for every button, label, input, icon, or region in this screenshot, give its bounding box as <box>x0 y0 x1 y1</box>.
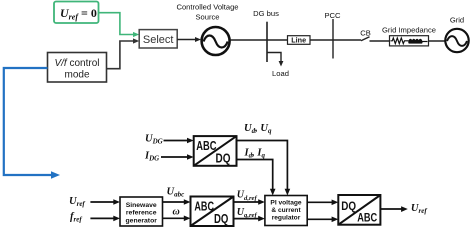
block sinewave reference generator <box>120 197 163 226</box>
svg-text:ABC: ABC <box>357 211 377 225</box>
svg-text:Uabc: Uabc <box>167 187 185 199</box>
svg-text:DQ: DQ <box>341 199 356 213</box>
svg-text:regulator: regulator <box>272 214 301 221</box>
svg-text:Uref: Uref <box>69 196 85 208</box>
block DQ/ABC output transform U3 <box>338 195 380 225</box>
svg-text:CB: CB <box>360 29 371 38</box>
svg-text:DQ: DQ <box>216 150 231 165</box>
svg-text:generator: generator <box>126 217 158 224</box>
svg-text:ABC: ABC <box>196 138 217 153</box>
block grid impedance <box>390 36 429 46</box>
svg-text:mode: mode <box>64 70 89 81</box>
block Line <box>288 36 311 45</box>
wire U_DG input <box>164 138 194 144</box>
wire PI to DQ/ABC upper <box>307 200 338 206</box>
block Uref=0 setpoint <box>54 2 99 24</box>
resistor Rg <box>391 38 409 44</box>
wire green Uref to Select <box>99 13 140 37</box>
svg-text:Uref: Uref <box>411 203 427 215</box>
wire I_DG input <box>161 154 194 160</box>
wire U_ref output <box>380 206 407 212</box>
svg-text:Ud,ref: Ud,ref <box>237 190 258 202</box>
svg-text:Uq,ref: Uq,ref <box>237 207 258 219</box>
wire PI to DQ/ABC lower <box>307 217 338 223</box>
wire Line to CB <box>310 39 361 41</box>
wire U_q,ref <box>234 216 265 222</box>
svg-text:Grid: Grid <box>450 16 464 25</box>
svg-text:Ud, Uq: Ud, Uq <box>244 123 272 135</box>
svg-text:reference: reference <box>126 210 157 217</box>
node DG bus <box>266 22 268 62</box>
wire Select to source <box>177 37 201 42</box>
source grid <box>445 29 468 52</box>
svg-text:V/f control: V/f control <box>54 58 99 69</box>
block PI voltage and current regulator <box>265 196 307 226</box>
svg-text:Source: Source <box>195 13 219 22</box>
block V/f control mode <box>48 53 107 83</box>
wire Ud Uq to PI regulator <box>237 141 291 196</box>
svg-text:Grid Impedance: Grid Impedance <box>382 26 436 35</box>
wire Id Iq to PI regulator <box>237 160 276 196</box>
svg-text:PI voltage: PI voltage <box>270 200 301 207</box>
svg-text:Id, Iq: Id, Iq <box>244 148 266 160</box>
svg-text:ω: ω <box>173 207 180 218</box>
svg-text:PCC: PCC <box>324 11 341 20</box>
wire f_ref input <box>90 216 120 222</box>
wire source to DG bus to Line box <box>231 39 288 41</box>
wire CB to impedance <box>370 40 390 42</box>
wire impedance to grid <box>429 40 447 42</box>
svg-text:DQ: DQ <box>214 211 228 226</box>
block ABC/DQ measurement transform U1 <box>194 136 237 166</box>
wire blue feedback to lower diagram <box>4 68 60 179</box>
svg-text:Select: Select <box>143 34 174 46</box>
inductor Lg <box>409 39 422 43</box>
wire U_abc <box>163 199 191 205</box>
wire V/f to Select <box>107 38 140 68</box>
svg-text:DG bus: DG bus <box>253 9 279 18</box>
source V1 controlled voltage source <box>202 27 230 55</box>
wire load branch <box>267 53 283 67</box>
svg-text:UDG: UDG <box>145 134 163 146</box>
node PCC bus <box>332 19 334 59</box>
svg-text:Controlled Voltage: Controlled Voltage <box>176 3 238 12</box>
block Select <box>139 30 177 48</box>
breaker CB <box>361 37 370 41</box>
svg-text:Uref = 0: Uref = 0 <box>60 6 97 22</box>
svg-text:IDG: IDG <box>144 151 159 163</box>
svg-text:& current: & current <box>271 207 301 214</box>
wire U_d,ref <box>234 199 265 205</box>
svg-text:Line: Line <box>291 36 306 45</box>
svg-text:Load: Load <box>272 69 289 78</box>
wire U_ref input <box>90 199 120 205</box>
svg-text:Sinewave: Sinewave <box>126 202 157 209</box>
block ABC/DQ reference transform U2 <box>191 197 234 227</box>
svg-text:ABC: ABC <box>194 198 214 213</box>
svg-text:fref: fref <box>70 212 82 224</box>
label Controlled Voltage Source <box>176 3 238 22</box>
wire omega <box>163 216 191 222</box>
